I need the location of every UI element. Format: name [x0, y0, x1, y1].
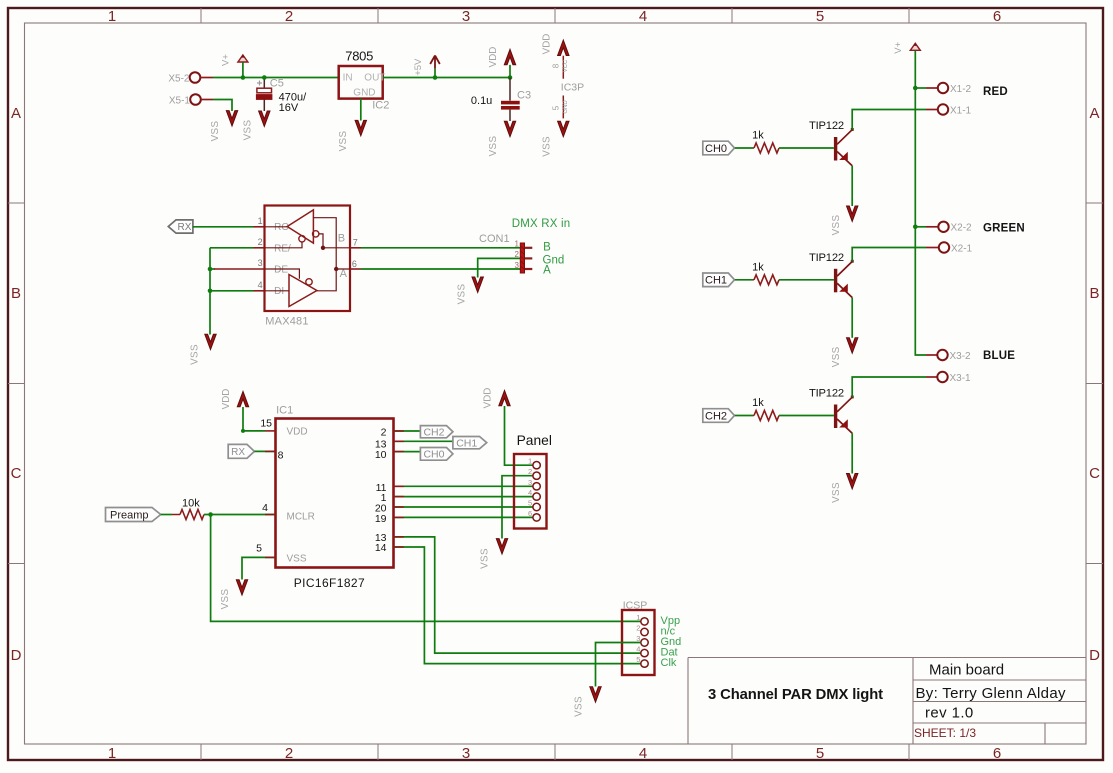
panel pin 2 pad — [533, 472, 540, 479]
svg-text:A: A — [1089, 105, 1099, 122]
transistor Q1 collector — [837, 262, 852, 277]
junction rail X1-2 — [913, 86, 918, 91]
junction MCLR node — [208, 512, 213, 517]
ICSP pin 1 pad — [641, 618, 648, 625]
svg-text:D: D — [11, 647, 22, 664]
svg-text:CH1: CH1 — [705, 275, 727, 287]
svg-text:X5-1: X5-1 — [169, 96, 191, 107]
svg-text:5: 5 — [256, 542, 262, 554]
title block grid — [688, 658, 1086, 745]
ground VSS IC3P — [558, 121, 569, 136]
row ticks right — [1086, 203, 1103, 564]
resistor R 10k leads — [172, 514, 180, 516]
pad X1-2 — [938, 83, 948, 93]
supply VDD for IC1 — [237, 391, 248, 406]
svg-text:rev 1.0: rev 1.0 — [925, 705, 974, 722]
wire resistor to base CH2 — [779, 415, 834, 417]
panel pin 5 pad — [533, 503, 540, 510]
svg-text:8: 8 — [552, 63, 561, 68]
ground VSS under C5 — [259, 111, 270, 126]
junction rail X2-2 — [913, 225, 918, 230]
svg-text:Main board: Main board — [929, 662, 1004, 679]
wire pin2 to CH2 — [394, 430, 421, 432]
svg-text:A: A — [340, 268, 348, 280]
wire 7805 gnd down — [360, 99, 362, 121]
wire collector up Q1 — [852, 248, 926, 262]
capacitor C5 plus mark — [257, 81, 262, 86]
junction V+ node — [241, 75, 246, 80]
svg-text:3: 3 — [528, 478, 532, 487]
pin stubs IC1 left — [265, 451, 276, 557]
svg-text:1: 1 — [636, 613, 640, 622]
svg-text:5: 5 — [552, 105, 561, 110]
svg-text:3: 3 — [515, 261, 520, 270]
wire resistor to base CH1 — [779, 279, 834, 281]
internal wiring MAX481 — [265, 218, 351, 291]
pin stub DI — [254, 290, 265, 292]
svg-text:RX: RX — [177, 222, 191, 233]
wire pin14 to ICSP Clk — [394, 547, 641, 664]
svg-text:VSS: VSS — [338, 131, 349, 152]
pin stub X3-1 — [926, 376, 938, 378]
svg-text:2: 2 — [258, 237, 263, 247]
ground VSS ICSP — [590, 687, 601, 702]
wire pin13 to ICSP Dat — [394, 537, 641, 653]
ICSP pin 3 pad — [641, 639, 648, 646]
capacitor C3 lead top — [509, 78, 511, 101]
svg-text:VSS: VSS — [574, 696, 585, 717]
svg-text:TIP122: TIP122 — [809, 120, 844, 132]
pin stub X1-1 — [926, 109, 938, 111]
svg-text:1k: 1k — [752, 130, 764, 142]
svg-text:4: 4 — [636, 645, 640, 654]
ground VSS under X5-1 — [226, 111, 237, 126]
svg-text:OUT: OUT — [364, 72, 385, 83]
pin stub RE — [254, 247, 265, 249]
transistor Q1 emitter arrow — [839, 284, 848, 292]
ground VSS CON1 — [472, 277, 483, 292]
column labels top — [108, 8, 1001, 25]
net flag RX right — [228, 444, 254, 458]
svg-text:RX: RX — [231, 447, 245, 458]
net flag CH0 — [703, 141, 735, 155]
wire collector up Q0 — [852, 110, 926, 130]
svg-text:MAX481: MAX481 — [265, 315, 308, 327]
transistor Q0 emitter — [837, 152, 852, 166]
driver enable bubble — [306, 279, 312, 285]
wire B to CON1 — [361, 247, 521, 249]
junction bus DI — [208, 289, 213, 294]
net flag CH2 — [703, 409, 735, 423]
svg-text:GND: GND — [563, 100, 569, 114]
svg-text:2: 2 — [285, 745, 293, 762]
svg-text:2: 2 — [515, 250, 520, 259]
svg-text:TIP122: TIP122 — [809, 388, 844, 400]
net flag Preamp — [106, 508, 161, 522]
resistor 1k CH2 leads — [753, 415, 754, 417]
pad X2-1 — [939, 242, 949, 252]
transistor Q1 emitter — [837, 283, 852, 297]
svg-text:4: 4 — [528, 488, 532, 497]
svg-text:VSS: VSS — [831, 482, 842, 503]
pin 1 CON1 — [525, 247, 533, 249]
pin stub RO — [254, 226, 265, 228]
svg-text:A: A — [11, 105, 21, 122]
svg-text:VSS: VSS — [456, 284, 467, 305]
svg-text:DE: DE — [274, 265, 288, 276]
svg-text:3: 3 — [258, 258, 263, 268]
svg-text:2: 2 — [636, 624, 640, 633]
wire CH1 to resistor — [735, 279, 753, 281]
wire X5-2 to V+ node — [213, 77, 339, 79]
wire V+ stem — [242, 62, 244, 77]
power symbol IC3P VDD — [558, 40, 569, 55]
net flag CH2 — [420, 426, 453, 438]
pin stub 15 — [265, 430, 276, 432]
svg-text:CH2: CH2 — [423, 427, 444, 439]
wire Gnd to CON1 — [478, 258, 521, 277]
svg-text:C3: C3 — [517, 90, 531, 102]
svg-text:6: 6 — [528, 509, 532, 518]
svg-text:+5V: +5V — [413, 58, 424, 76]
svg-text:VDD: VDD — [483, 388, 494, 409]
pin stub B pin7 — [350, 247, 361, 249]
wire CH2 to resistor — [735, 415, 753, 417]
svg-text:2: 2 — [528, 467, 532, 476]
net flag CH1 — [703, 273, 735, 287]
junction bus DE — [208, 267, 213, 272]
svg-text:IC3P: IC3P — [561, 82, 584, 94]
receiver input bubble — [313, 231, 319, 237]
capacitor C3 — [501, 101, 520, 110]
transistor Q1 TIP122 base bar — [834, 269, 837, 293]
svg-text:1: 1 — [108, 8, 116, 25]
wire pin5 to ground — [242, 557, 276, 579]
junction +5V node — [433, 75, 438, 80]
svg-text:VSS: VSS — [480, 548, 491, 569]
svg-text:VDD: VDD — [221, 389, 232, 410]
panel pin 3 pad — [533, 483, 540, 490]
svg-text:VSS: VSS — [831, 215, 842, 236]
resistor R 10k — [180, 510, 204, 520]
column ticks top — [201, 8, 909, 23]
ground VSS under pin5 — [236, 580, 247, 595]
ground VSS panel — [496, 539, 507, 554]
svg-text:VSS: VSS — [831, 346, 842, 367]
connector CON1 bar — [520, 243, 524, 273]
wire VDD to pin15 — [243, 407, 265, 431]
net flag RX left — [168, 220, 193, 233]
panel pin 6 pad — [533, 514, 540, 521]
transistor Q0 emitter arrow — [839, 152, 848, 160]
svg-text:3: 3 — [462, 8, 470, 25]
supply +5V arrow — [430, 56, 440, 69]
svg-text:Panel: Panel — [517, 433, 552, 448]
svg-text:7: 7 — [353, 238, 358, 248]
svg-text:VSS: VSS — [220, 589, 231, 610]
receiver enable bubble — [299, 236, 305, 242]
svg-text:6: 6 — [352, 259, 357, 269]
pin stub X3-2 — [926, 354, 938, 356]
svg-text:5: 5 — [816, 745, 824, 762]
net flag CH1 — [453, 437, 487, 449]
svg-text:VSS: VSS — [488, 136, 499, 157]
pin stub A pin6 — [350, 268, 361, 270]
svg-text:1: 1 — [528, 457, 532, 466]
pad X3-1 — [937, 372, 947, 382]
svg-text:GND: GND — [353, 88, 375, 99]
svg-text:19: 19 — [375, 513, 387, 525]
svg-text:8: 8 — [278, 450, 284, 462]
connector ICSP box — [622, 610, 655, 675]
wire A to CON1 — [361, 268, 521, 270]
column ticks bottom — [201, 744, 909, 760]
wire MCLR to ICSP Vpp — [211, 515, 641, 622]
svg-text:X1-2: X1-2 — [950, 84, 972, 95]
svg-text:A: A — [543, 265, 551, 277]
pin stub DE — [214, 268, 265, 270]
svg-text:B: B — [338, 232, 345, 244]
wire RX to pin8 — [254, 450, 275, 452]
panel pin 4 pad — [533, 493, 540, 500]
svg-text:VSS: VSS — [287, 554, 307, 565]
resistor 1k CH0 — [754, 143, 779, 153]
voltage regulator IC2 box — [339, 66, 383, 99]
svg-text:2: 2 — [381, 426, 387, 438]
pin stub X5-1 — [201, 99, 213, 101]
svg-text:B: B — [1089, 285, 1099, 302]
pin 2 CON1 — [525, 257, 533, 259]
wire RX to RO — [193, 226, 254, 228]
wire pin13 to CH1 — [394, 440, 453, 442]
svg-text:GREEN: GREEN — [983, 223, 1025, 235]
capacitor C3 lead bottom — [509, 110, 511, 121]
ground VSS under IC2 — [355, 120, 366, 135]
junction internal B — [321, 246, 325, 250]
ground VSS Q2 — [847, 474, 858, 489]
svg-text:4: 4 — [639, 8, 647, 25]
svg-text:15: 15 — [260, 417, 272, 429]
svg-text:0.1u: 0.1u — [471, 95, 492, 107]
svg-text:10k: 10k — [182, 498, 200, 510]
panel pin 1 pad — [533, 462, 540, 469]
wire panel pin2 to ground — [502, 476, 533, 539]
svg-text:C5: C5 — [270, 78, 284, 90]
pin IC3P GND — [562, 96, 564, 119]
wire rail to X2-2 — [915, 226, 926, 228]
ICSP pin 4 pad — [641, 649, 648, 656]
svg-text:Preamp: Preamp — [110, 509, 149, 521]
net flag CH0 — [420, 448, 453, 461]
svg-text:RED: RED — [983, 86, 1008, 98]
svg-text:VSS: VSS — [210, 121, 221, 142]
wire resistor to base CH0 — [779, 147, 834, 149]
driver buffer triangle — [289, 275, 317, 307]
transistor Q2 collector — [837, 397, 852, 412]
svg-text:4: 4 — [262, 502, 268, 514]
svg-text:X1-1: X1-1 — [950, 105, 972, 116]
svg-text:7805: 7805 — [345, 49, 373, 64]
row ticks left — [8, 203, 25, 564]
wire emitter down Q0 — [851, 166, 853, 206]
svg-text:X2-1: X2-1 — [951, 243, 973, 254]
wire emitter down Q2 — [851, 433, 853, 473]
receiver buffer triangle — [287, 210, 313, 243]
wire pin1 to panel4 — [394, 496, 533, 498]
svg-text:B: B — [11, 285, 21, 302]
svg-text:DMX RX in: DMX RX in — [512, 218, 571, 230]
svg-text:1: 1 — [258, 216, 263, 226]
svg-text:VSS: VSS — [541, 136, 552, 157]
pad X3-2 — [937, 350, 947, 360]
ICSP pin 2 pad — [641, 628, 648, 635]
pin stub X1-2 — [926, 87, 938, 89]
svg-text:6: 6 — [993, 745, 1001, 762]
pin IC3P VCC — [562, 56, 564, 79]
svg-text:3 Channel PAR DMX light: 3 Channel PAR DMX light — [708, 687, 883, 703]
ground VSS Q1 — [847, 338, 858, 353]
svg-text:C: C — [1089, 465, 1100, 482]
ICSP pin 5 pad — [641, 660, 648, 667]
pad X1-1 — [938, 104, 948, 114]
svg-text:D: D — [1089, 647, 1100, 664]
pad X2-2 — [938, 222, 948, 232]
pad X5-2 — [190, 72, 201, 83]
svg-text:5: 5 — [816, 8, 824, 25]
wire X5-1 to ground — [213, 100, 232, 112]
pin 3 CON1 — [525, 268, 533, 270]
junction VDD corner — [241, 429, 245, 433]
wire emitter down Q1 — [851, 298, 853, 338]
svg-text:B: B — [543, 241, 551, 253]
pad X5-1 — [190, 94, 201, 105]
wire CH0 to resistor — [735, 147, 753, 149]
svg-text:X5-2: X5-2 — [168, 74, 190, 85]
wire DI bus — [210, 290, 254, 292]
svg-text:1: 1 — [515, 240, 520, 249]
capacitor C5 lead top — [263, 78, 265, 89]
supply VDD for panel — [499, 390, 510, 405]
ground VSS under bus — [205, 334, 216, 349]
wire ICSP Gnd to ground — [596, 643, 641, 687]
wire resistor to MCLR — [204, 514, 276, 516]
wire Preamp to resistor — [161, 514, 172, 516]
svg-text:X2-2: X2-2 — [951, 223, 973, 234]
svg-text:CH1: CH1 — [456, 437, 477, 449]
svg-text:By: Terry Glenn Alday: By: Terry Glenn Alday — [916, 685, 1066, 702]
supply V+ top left — [238, 55, 248, 62]
pin stub X5-2 — [201, 77, 214, 79]
svg-text:VSS: VSS — [243, 120, 254, 141]
wire pin20 to panel5 — [394, 506, 533, 508]
svg-text:2: 2 — [285, 8, 293, 25]
transistor Q0 collector — [837, 130, 852, 145]
svg-text:4: 4 — [639, 745, 647, 762]
row labels right — [1089, 105, 1100, 664]
wire pin19 to panel6 — [394, 516, 533, 518]
svg-text:CH0: CH0 — [705, 143, 727, 155]
svg-text:5: 5 — [636, 655, 640, 664]
svg-text:X3-2: X3-2 — [950, 351, 972, 362]
transistor Q2 emitter arrow — [839, 419, 848, 427]
capacitor C5 — [256, 88, 272, 99]
connector Panel box — [514, 454, 547, 529]
pin stubs IC1 right — [394, 431, 404, 547]
svg-text:VDD: VDD — [541, 34, 552, 55]
svg-text:IC2: IC2 — [372, 100, 389, 112]
svg-text:RO: RO — [274, 222, 289, 233]
wire pin11 to panel3 — [394, 485, 533, 487]
svg-text:VDD: VDD — [287, 427, 308, 438]
svg-text:1k: 1k — [752, 261, 764, 273]
wire VDD to panel pin1 — [505, 406, 533, 465]
svg-text:ICSP: ICSP — [623, 600, 648, 612]
svg-text:IN: IN — [343, 72, 353, 83]
svg-text:SHEET: 1/3: SHEET: 1/3 — [914, 726, 976, 740]
svg-text:5: 5 — [528, 499, 532, 508]
resistor 1k CH1 leads — [753, 279, 754, 281]
wire 7805 out to VDD node — [383, 77, 510, 79]
svg-text:RE/: RE/ — [274, 243, 291, 254]
svg-text:BLUE: BLUE — [983, 350, 1015, 362]
IC MAX481 box — [265, 206, 351, 312]
row labels left — [11, 105, 22, 664]
pin stub X2-1 — [926, 247, 939, 249]
wire +5V stem — [434, 69, 436, 78]
svg-text:VCC: VCC — [563, 59, 569, 72]
svg-text:IC1: IC1 — [276, 404, 293, 416]
svg-text:14: 14 — [375, 542, 387, 554]
capacitor C5 lead bottom — [263, 99, 265, 111]
svg-text:6: 6 — [993, 8, 1001, 25]
column labels bottom — [108, 745, 1001, 762]
wire collector up Q2 — [852, 377, 926, 397]
junction C3 node — [508, 75, 513, 80]
wire pin10 to CH0 — [394, 451, 421, 453]
wire left bus vertical — [209, 248, 211, 335]
svg-text:CH0: CH0 — [423, 449, 444, 461]
svg-text:X3-1: X3-1 — [950, 373, 972, 384]
wire rail to X1-2 — [915, 87, 926, 89]
transistor Q2 emitter — [837, 419, 852, 433]
svg-text:C: C — [11, 465, 22, 482]
svg-text:1: 1 — [108, 745, 116, 762]
svg-text:Clk: Clk — [661, 657, 677, 669]
resistor 1k CH0 leads — [753, 147, 754, 149]
svg-text:VSS: VSS — [190, 344, 201, 365]
svg-text:CON1: CON1 — [479, 233, 510, 245]
supply VDD over C3 — [504, 49, 515, 64]
svg-text:TIP122: TIP122 — [809, 252, 844, 264]
wire VDD to C3 node — [509, 65, 511, 78]
svg-text:CH2: CH2 — [705, 410, 727, 422]
svg-text:1k: 1k — [752, 397, 764, 409]
svg-text:DI: DI — [274, 286, 284, 297]
svg-text:10: 10 — [375, 449, 387, 461]
supply V+ rail — [910, 43, 920, 50]
pin stub X2-2 — [926, 226, 939, 228]
wire RE bus — [210, 247, 254, 249]
svg-text:PIC16F1827: PIC16F1827 — [294, 576, 365, 590]
transistor Q2 TIP122 base bar — [834, 405, 837, 429]
transistor Q0 TIP122 base bar — [834, 137, 837, 161]
wire DE bus — [210, 268, 215, 270]
svg-text:V+: V+ — [220, 54, 231, 66]
ground VSS under C3 — [504, 121, 515, 136]
resistor 1k CH1 — [754, 275, 779, 285]
svg-text:4: 4 — [258, 280, 263, 290]
junction internal A — [334, 267, 338, 271]
